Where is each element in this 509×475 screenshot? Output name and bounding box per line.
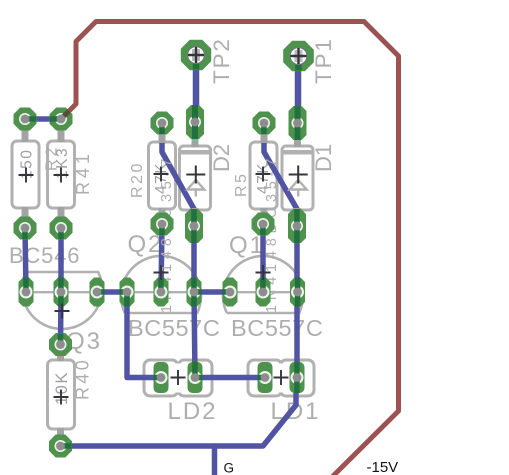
svg-text:R5: R5 [233, 172, 250, 197]
origin cross TP2 [188, 47, 204, 63]
value 150 [19, 149, 36, 179]
pad Q3.pad2 [54, 278, 69, 307]
wire Q3.pad3 to Q2.pad1 [97, 289, 127, 295]
pad LD1.left [258, 362, 273, 393]
origin cross TP1 [291, 48, 307, 64]
pad R20.top [151, 112, 174, 135]
svg-text:D1: D1 [311, 144, 336, 172]
value 47K of R20 [153, 162, 170, 194]
D1 lead stubs [294, 139, 301, 212]
value 47K of R5 [255, 162, 272, 194]
R40 lead stubs [57, 352, 64, 439]
pad D1.bottom [288, 209, 306, 243]
wire Q3.pad2 to R40.top [58, 292, 64, 345]
wire -15V top layer [61, 22, 399, 475]
pad R40.bottom [49, 435, 72, 458]
svg-text:BC557C: BC557C [128, 315, 220, 341]
label D1 [311, 144, 336, 172]
Q2 lead line [128, 291, 195, 293]
value BC557C of Q2 [128, 315, 220, 341]
pad R2.bottom [14, 217, 37, 240]
wire R5.top to D1.bottom [264, 123, 297, 226]
svg-text:TP2: TP2 [209, 37, 234, 84]
wire R40.bottom to LD1.right via G junction [61, 378, 297, 446]
wire TP2 to D2.top [193, 55, 200, 122]
pad Q2.pad2 [154, 278, 169, 307]
origin cross Q3 [55, 304, 70, 319]
svg-text:Q1: Q1 [229, 232, 265, 259]
transistor Q2 outline (BC557C TO-92) [121, 256, 201, 313]
wire R2.top to R41.top [25, 116, 61, 122]
diode D2 body [180, 146, 211, 210]
D2 lead stubs [192, 138, 199, 212]
R5 lead stubs [261, 131, 268, 217]
net label G [224, 461, 235, 475]
wire Q2.pad3 to Q1.pad1 [194, 289, 230, 295]
value 1K3 [54, 147, 71, 179]
pad R40.top [49, 333, 72, 356]
wire R5.bottom to Q1.pad2 [260, 224, 266, 292]
value 1N4148DO35-7 of D1 [264, 154, 280, 313]
pad Q1.pad3 [290, 278, 305, 307]
R2 lead stubs [22, 127, 29, 221]
origin cross Q1 [256, 265, 271, 280]
net label -15V [367, 459, 399, 475]
transistor Q1 outline (BC557C TO-92) [223, 256, 303, 313]
label TP1 [311, 37, 336, 84]
origin cross R20 [154, 167, 169, 182]
Q3 lead line [27, 291, 96, 293]
pad TP2 [181, 40, 211, 70]
pad R2.top [14, 108, 37, 131]
pad Q2.pad3 [187, 278, 202, 307]
wire R2.bottom to Q3.pad1 [25, 228, 26, 292]
pad Q1.pad1 [223, 278, 238, 307]
label Q3 [66, 328, 102, 355]
svg-text:TP1: TP1 [311, 37, 336, 84]
origin cross R40 [54, 390, 69, 405]
label Q1 [229, 232, 265, 259]
svg-text:R40: R40 [73, 357, 93, 400]
wire Q2.pad1 to LD2.left [127, 292, 161, 378]
wire R41.bottom to Q3.pad2 [58, 228, 64, 292]
pad Q3.pad3 [90, 278, 105, 307]
svg-text:R41: R41 [73, 150, 93, 195]
pad R41.bottom [50, 217, 73, 240]
wire R20.bottom to Q2.pad2 [161, 224, 162, 292]
resistor R2 body [12, 141, 39, 208]
wire Q1.pad3 to LD1.right [294, 292, 300, 378]
label R2 [44, 145, 61, 171]
transistor Q3 outline (BC546 TO-92) [22, 272, 102, 329]
label TP2 [209, 37, 234, 84]
pad D2.top [186, 105, 204, 139]
origin cross LD2 [171, 370, 186, 385]
resistor R5 body [250, 142, 277, 209]
label LD1 [271, 398, 321, 425]
wire D1.bottom to Q1.pad3 [294, 226, 300, 292]
origin cross R5 [256, 167, 271, 182]
Q1 lead line [231, 291, 297, 293]
pad LD1.right [290, 362, 305, 393]
label R41 [73, 150, 93, 195]
resistor R20 body [149, 142, 176, 209]
pad Q2.pad1 [120, 278, 135, 307]
pad LD2.right [188, 362, 203, 393]
pad R41.top [50, 108, 73, 131]
value 1N4148DO35-7 of D2 [159, 154, 175, 313]
origin cross Q2 [154, 265, 169, 280]
diode D1 body [282, 146, 313, 210]
label D2 [209, 144, 234, 172]
label BC546 [9, 243, 80, 268]
wire D2.bottom to Q2.pad3 [191, 226, 197, 292]
origin cross LD1 [274, 370, 289, 385]
pad R5.top [253, 112, 276, 135]
origin cross R2 [19, 168, 34, 183]
LED LD1 outline [248, 360, 314, 396]
label R40 [73, 357, 93, 400]
svg-text:10K: 10K [53, 371, 71, 405]
origin cross R41 [54, 168, 69, 183]
label Q2 [128, 231, 164, 258]
pad R20.bottom [151, 213, 174, 236]
wire Q2.pad3 to LD2.right [194, 292, 195, 378]
wire G branch [212, 446, 218, 475]
svg-text:R20: R20 [129, 161, 146, 198]
pad R5.bottom [252, 213, 275, 236]
pad Q1.pad2 [256, 278, 271, 307]
label LD2 [168, 398, 218, 425]
resistor R40 body [48, 360, 75, 429]
pad LD2.left [154, 362, 169, 393]
value BC557C of Q1 [231, 315, 323, 341]
svg-text:BC546: BC546 [9, 243, 80, 268]
pad D1.top [289, 106, 307, 140]
wire TP1 to D1.top [295, 56, 302, 123]
label R5 [233, 172, 250, 197]
value 10K [53, 371, 71, 405]
R20 lead stubs [159, 131, 166, 217]
label R20 [129, 161, 146, 198]
svg-text:-15V: -15V [367, 459, 399, 475]
svg-text:LD2: LD2 [168, 398, 218, 425]
diode D1 symbol [289, 166, 308, 197]
diode D2 symbol [186, 166, 205, 197]
pad D2.bottom [185, 209, 203, 243]
svg-text:BC557C: BC557C [231, 315, 323, 341]
wire LD2.right to LD1.left [195, 375, 265, 381]
pad Q3.pad1 [19, 278, 34, 307]
resistor R41 body [48, 141, 75, 208]
svg-text:G: G [224, 461, 235, 475]
wire R20.top to D2.bottom [162, 123, 194, 226]
pad TP1 [283, 41, 314, 71]
R41 lead stubs [58, 127, 65, 221]
LED LD2 outline [144, 360, 212, 396]
svg-text:D2: D2 [209, 144, 234, 172]
